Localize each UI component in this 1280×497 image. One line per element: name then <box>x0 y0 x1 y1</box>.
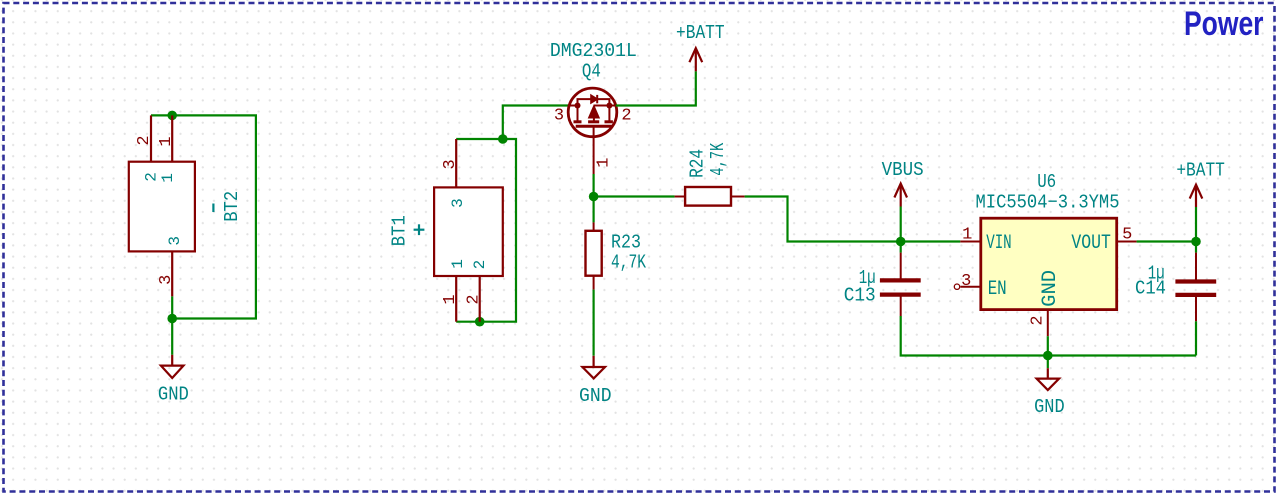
junction GND rail <box>1043 351 1053 361</box>
svg-text:3: 3 <box>166 236 184 246</box>
svg-text:GND: GND <box>1039 270 1062 307</box>
wire U6 GND pin to rail <box>1047 336 1049 355</box>
wire C14 to GND rail <box>1195 321 1197 355</box>
svg-text:VOUT: VOUT <box>1071 232 1111 255</box>
svg-text:1: 1 <box>157 136 176 146</box>
wire VBUS node down to C13 <box>900 242 902 253</box>
pin 3 EN stub with unconnected circle <box>954 284 959 289</box>
svg-text:VBUS: VBUS <box>882 159 924 181</box>
svg-text:2: 2 <box>1029 315 1048 325</box>
battery BT1 <box>434 139 503 322</box>
junction BT2 top <box>167 111 177 121</box>
power +BATT right <box>1190 185 1203 207</box>
wire riser to Q4 gate rail <box>503 106 570 140</box>
wire junction to ground <box>1047 356 1049 369</box>
svg-text:4,7K: 4,7K <box>611 252 646 274</box>
svg-text:GND: GND <box>158 383 189 405</box>
wire node to R24 <box>594 195 675 197</box>
svg-text:GND: GND <box>1034 396 1065 418</box>
plus sign of BT1 value <box>414 224 425 235</box>
svg-text:1: 1 <box>594 157 613 167</box>
junction +BATT node <box>1191 237 1201 247</box>
pin 1 VIN stub <box>960 241 981 243</box>
svg-text:1: 1 <box>159 173 177 183</box>
svg-text:4,7K: 4,7K <box>707 142 729 175</box>
battery BT2 <box>129 115 195 296</box>
wire C13 to GND rail <box>901 316 1048 356</box>
svg-text:3: 3 <box>441 159 460 169</box>
wire GND rail right <box>1048 354 1196 356</box>
svg-text:DMG2301L: DMG2301L <box>550 40 637 62</box>
pin 5 VOUT stub <box>1117 241 1137 243</box>
minus sign of BT2 value <box>212 204 214 213</box>
svg-text:1: 1 <box>441 294 460 304</box>
svg-text:1: 1 <box>962 226 972 245</box>
IC U6 body <box>981 218 1117 309</box>
svg-text:2: 2 <box>621 107 631 126</box>
svg-text:2: 2 <box>465 294 484 304</box>
wire VOUT to +BATT node <box>1137 240 1196 242</box>
wire R23 to GND <box>592 290 594 356</box>
power +BATT above Q4 <box>689 48 702 71</box>
svg-text:2: 2 <box>135 135 154 145</box>
svg-text:3: 3 <box>961 272 971 291</box>
svg-text:MIC5504−3.3YM5: MIC5504−3.3YM5 <box>976 192 1120 214</box>
wire Q4 pin1 down to node <box>592 174 594 222</box>
transistor Q4 internals <box>569 95 616 126</box>
junction BT1 top <box>498 134 508 144</box>
svg-text:3: 3 <box>554 107 564 126</box>
svg-text:EN: EN <box>988 278 1007 301</box>
junction BT1 bottom <box>475 317 485 327</box>
svg-text:3: 3 <box>449 198 467 208</box>
svg-text:Q4: Q4 <box>582 60 601 82</box>
resistor R23 <box>586 222 602 289</box>
wire VBUS node to VIN <box>901 240 961 242</box>
capacitor C14 <box>1175 253 1216 322</box>
wire Q4 pin2 to +BATT <box>616 71 696 105</box>
wire BT2 pin3 to GND node <box>171 296 173 355</box>
svg-text:+BATT: +BATT <box>1176 159 1225 181</box>
svg-text:GND: GND <box>579 385 612 407</box>
svg-text:U6: U6 <box>1037 171 1056 193</box>
svg-text:BT1: BT1 <box>388 215 410 246</box>
resistor R24 <box>675 187 745 206</box>
ground below U6 <box>1037 368 1060 390</box>
ground below BT2 <box>161 355 184 378</box>
power VBUS <box>894 184 907 207</box>
svg-text:R23: R23 <box>611 232 641 254</box>
wire BT1 top rail <box>456 139 516 322</box>
transistor Q4 body circle <box>568 88 617 137</box>
wire +BATT node up <box>1195 207 1197 242</box>
svg-text:BT2: BT2 <box>221 191 243 222</box>
ground below R23 <box>582 356 605 379</box>
svg-text:VIN: VIN <box>986 232 1012 255</box>
svg-text:Power: Power <box>1184 5 1264 43</box>
wire +BATT node down to C14 <box>1195 242 1197 253</box>
svg-text:+BATT: +BATT <box>676 22 725 44</box>
svg-text:C14: C14 <box>1135 277 1166 299</box>
wire R24 to VBUS node <box>745 197 901 242</box>
wire VBUS node up <box>900 207 902 242</box>
svg-text:2: 2 <box>142 172 160 182</box>
pin 2 GND stub <box>1047 310 1049 337</box>
junction VBUS node <box>896 237 906 247</box>
pin 1 stub of Q4 <box>593 126 595 174</box>
svg-text:C13: C13 <box>844 285 876 307</box>
junction BT2 bottom <box>167 314 177 324</box>
junction R23/R24 node <box>589 192 599 202</box>
wire BT2 top to right loop <box>151 115 256 318</box>
capacitor C13 <box>880 253 921 316</box>
svg-text:1: 1 <box>449 259 467 269</box>
svg-text:2: 2 <box>471 260 489 270</box>
svg-text:3: 3 <box>157 275 176 285</box>
svg-text:R24: R24 <box>687 149 709 178</box>
svg-text:5: 5 <box>1122 226 1132 245</box>
